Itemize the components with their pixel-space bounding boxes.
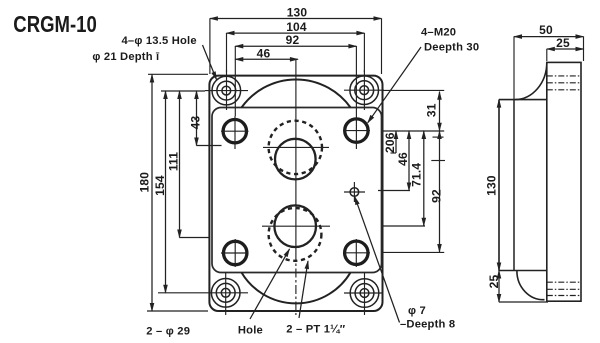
svg-text:43: 43 [188,116,202,130]
svg-text:104: 104 [286,20,307,34]
svg-text:Hole: Hole [238,325,263,337]
title CRGM-10 [13,11,97,37]
side view bottom hole lines [547,282,582,295]
svg-text:46: 46 [396,152,410,166]
dimension 180 left [138,74,208,311]
tapped hole M20 top-left [221,116,249,149]
label Hole [238,325,263,337]
svg-text:180: 180 [138,172,152,193]
dimension 25 side top [547,36,584,61]
svg-text:25: 25 [556,36,570,50]
svg-text:130: 130 [485,175,499,196]
dimension 111 left [167,91,210,238]
front view plate outline [209,76,382,311]
side view bottom arc [517,271,545,300]
leader for PT label [299,261,308,318]
label 4-M20 Deepth 30 [421,26,479,53]
lower port hole solid circle [274,205,316,247]
leader for 13.5 hole label [203,45,217,80]
side view top hole lines [547,76,582,90]
vertical centerline [295,59,297,315]
tapped hole M20 bottom-left [221,239,249,267]
dimension 130 side [485,100,500,271]
lower port horizontal centerline [262,225,330,227]
svg-text:92: 92 [430,189,444,203]
dimension 154 left [153,91,205,293]
dimension 50 side [514,23,584,99]
top arch of pump body [242,79,351,107]
svg-text:31: 31 [425,103,439,117]
corner hole top-left [205,70,248,110]
dimension 46 right [378,131,410,191]
svg-text:φ 21 Depth ī: φ 21 Depth ī [92,51,160,63]
svg-text:–Deepth 8: –Deepth 8 [400,319,455,331]
svg-text:4–φ 13.5 Hole: 4–φ 13.5 Hole [122,35,197,47]
svg-text:71.4: 71.4 [409,163,423,187]
upper M20 extension line right [383,130,444,132]
label 2-PT 1 1/4 [286,324,345,336]
corner hole top-right [344,70,384,110]
upper port PT thread dashed circle [269,121,322,174]
svg-text:50: 50 [539,23,553,37]
svg-text:25: 25 [487,275,501,289]
dimension 206 right [383,131,397,153]
dimension 92 right [383,131,444,252]
side view flange plate [499,100,547,271]
side view body block [547,62,581,301]
tapped hole M20 bottom-right [343,239,370,267]
upper port horizontal centerline [263,146,329,148]
dimension 104 top [227,20,365,72]
leader for Hole label [250,249,290,319]
svg-text:92: 92 [286,33,300,47]
svg-text:CRGM-10: CRGM-10 [13,11,97,37]
leader for M20 label [368,47,421,123]
extension stub upper port center right [431,160,445,162]
svg-text:φ 7: φ 7 [408,305,426,317]
label 2-phi29 [146,326,190,338]
dimension 46 top [235,46,298,60]
svg-text:154: 154 [153,175,167,196]
dimension 31 right [383,90,444,130]
dimension 92 top [235,33,356,116]
label phi7 Deepth 8 [400,305,455,331]
dimension 25 side bottom [487,271,548,303]
upper port hole solid circle [275,139,316,180]
bottom arch of pump body [242,273,351,304]
corner hole bottom-left [205,272,248,315]
svg-text:130: 130 [287,6,308,20]
svg-text:206: 206 [383,132,397,153]
side view top arc [515,62,547,99]
dimension 130 top [210,6,382,75]
leader for phi7 label [355,197,400,323]
extension stub at y137 right [433,136,444,138]
corner hole bottom-right [344,272,382,315]
dimension 71.4 right [383,131,425,226]
svg-text:4–M20: 4–M20 [421,26,456,38]
svg-text:111: 111 [167,152,181,171]
label 4-13.5 hole [92,35,196,63]
tapped hole M20 top-right [343,116,370,149]
dimension 43 left [188,91,221,146]
svg-text:2 – PT 1¼″: 2 – PT 1¼″ [286,324,345,336]
small hole phi7 [344,182,365,202]
svg-text:46: 46 [257,46,271,60]
svg-text:Deepth 30: Deepth 30 [424,42,479,54]
lower port PT thread dashed circle [269,208,322,261]
front view inner face outline [212,108,382,273]
svg-text:2 – φ 29: 2 – φ 29 [146,326,190,338]
